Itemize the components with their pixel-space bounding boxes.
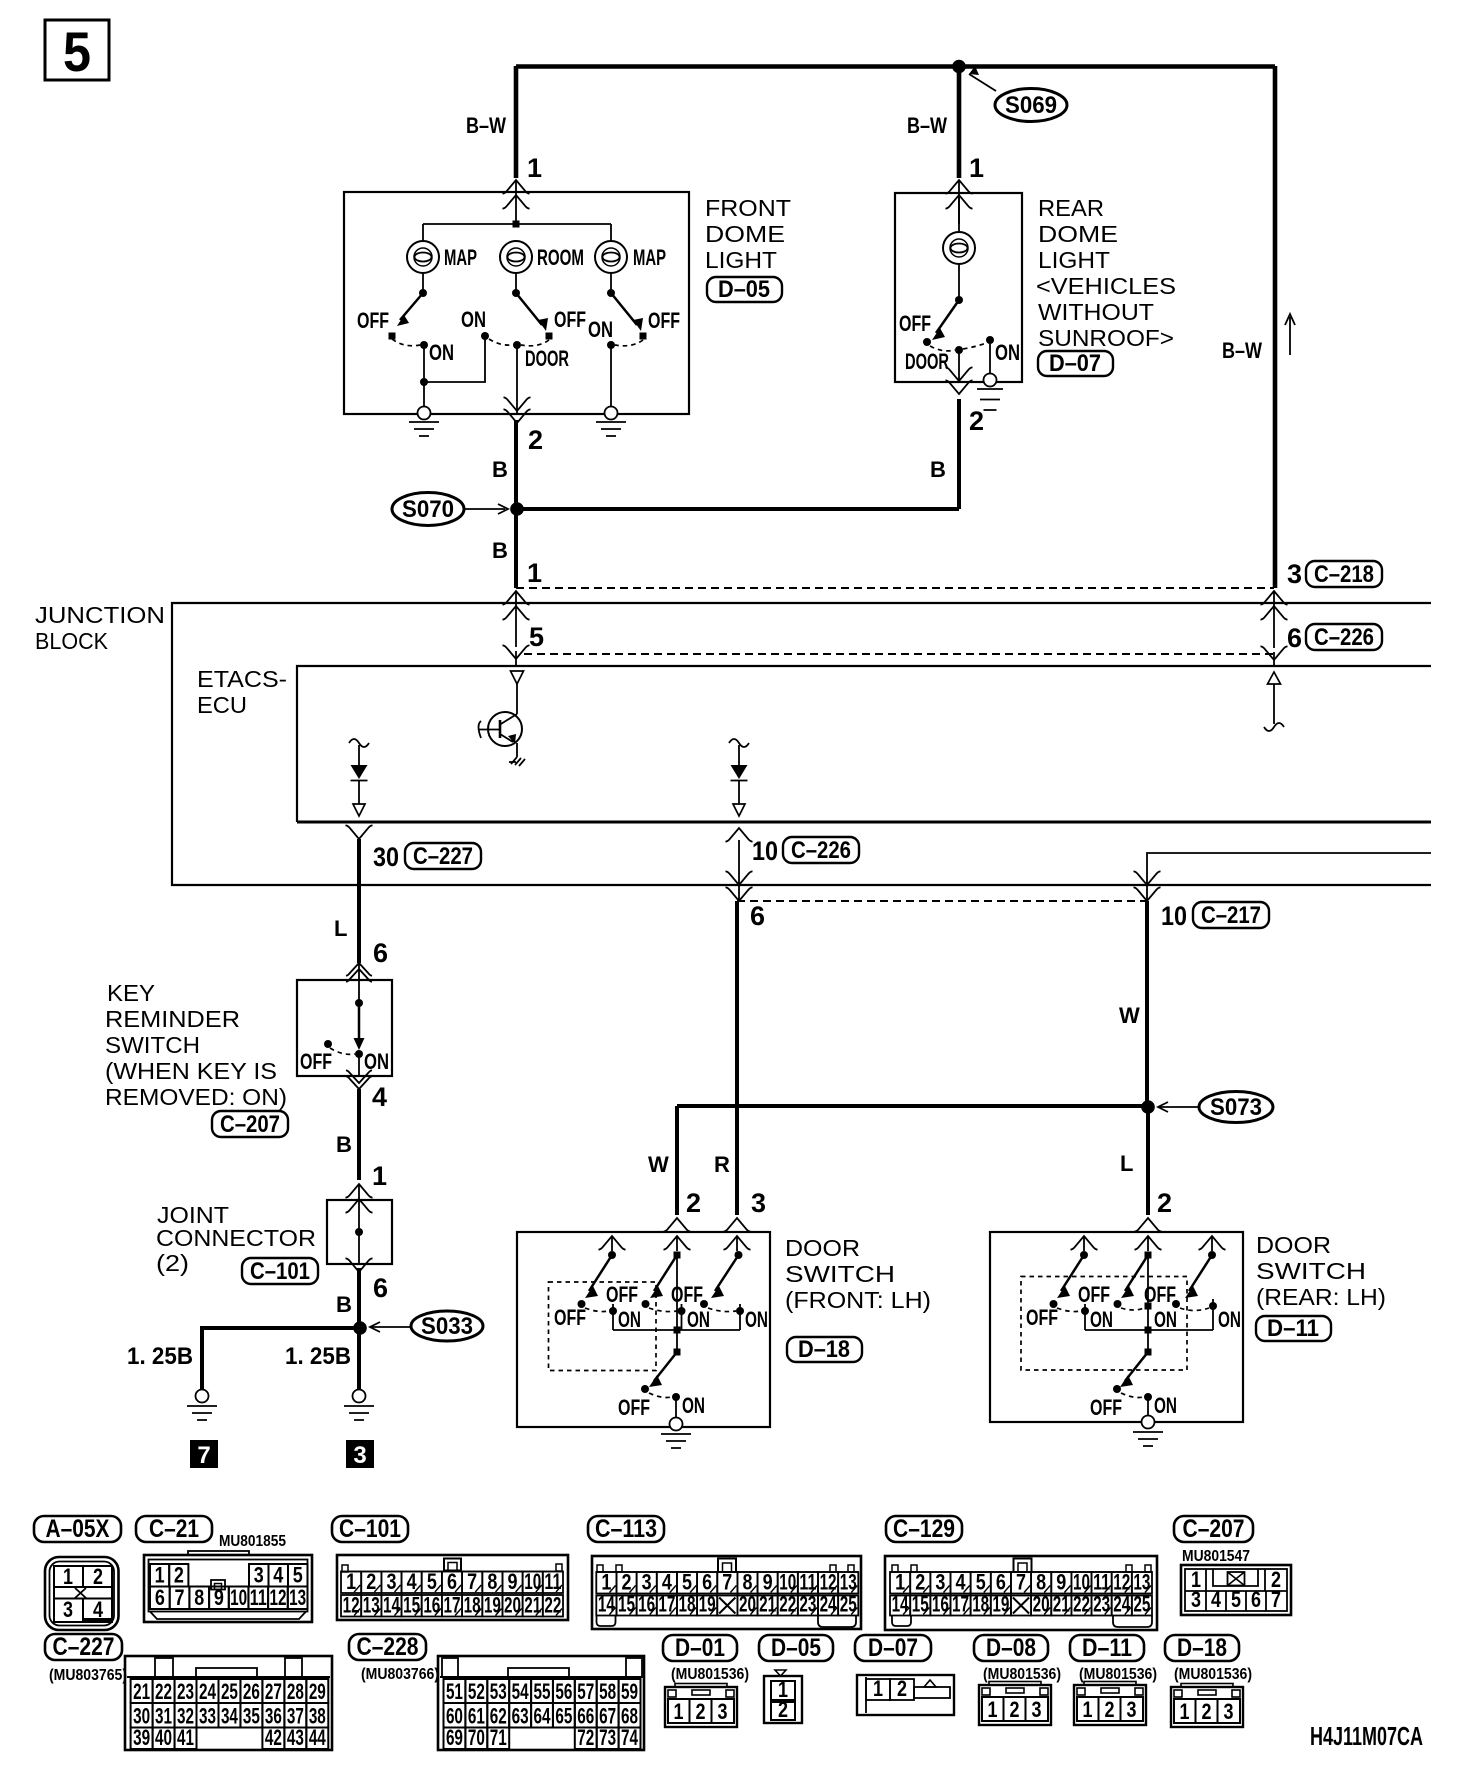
- label ETACS-ECU: [197, 666, 287, 718]
- svg-text:7: 7: [1271, 1587, 1281, 1612]
- svg-text:OFF: OFF: [671, 1282, 703, 1307]
- svg-text:14: 14: [892, 1592, 910, 1617]
- connector C-227 body: [125, 1656, 332, 1750]
- svg-text:6: 6: [750, 901, 765, 931]
- svg-text:FRONT: FRONT: [705, 195, 791, 221]
- svg-text:(MU801536): (MU801536): [1079, 1666, 1157, 1683]
- svg-text:17: 17: [444, 1593, 461, 1618]
- pin 2 front dome light: [504, 397, 531, 411]
- svg-text:S069: S069: [1005, 92, 1057, 119]
- label D-05: [707, 276, 782, 303]
- label S073: [1158, 1092, 1273, 1123]
- dashed line front door connector: [737, 900, 1147, 902]
- svg-text:41: 41: [177, 1725, 194, 1750]
- svg-text:D–07: D–07: [1049, 350, 1101, 377]
- svg-text:1. 25B: 1. 25B: [285, 1343, 351, 1370]
- svg-text:D–07: D–07: [868, 1634, 918, 1662]
- svg-text:OFF: OFF: [618, 1395, 650, 1420]
- diode D1 left: [349, 739, 369, 816]
- node S073 junction dot: [1141, 1100, 1155, 1114]
- svg-text:SUNROOF>: SUNROOF>: [1038, 325, 1174, 351]
- wire S070 horizontal: [516, 507, 959, 511]
- svg-text:C–129: C–129: [893, 1515, 955, 1543]
- svg-text:WITHOUT: WITHOUT: [1038, 299, 1154, 325]
- wire B-W top horizontal: [516, 64, 1275, 69]
- junction block outline: [172, 603, 1431, 885]
- front door dashed box: [549, 1282, 657, 1371]
- svg-text:C–227: C–227: [413, 843, 473, 870]
- label DOOR SWITCH REAR LH: [1256, 1232, 1386, 1310]
- svg-text:2: 2: [1157, 1188, 1172, 1218]
- svg-text:15: 15: [912, 1592, 929, 1617]
- svg-text:DOOR: DOOR: [525, 346, 569, 371]
- pin 30 C-227 below ETACS: [346, 825, 373, 839]
- connector C-207 body: [1181, 1565, 1291, 1615]
- svg-text:21: 21: [133, 1679, 150, 1704]
- svg-text:(WHEN KEY IS: (WHEN KEY IS: [105, 1058, 277, 1084]
- rear door switch box D-11: [990, 1232, 1243, 1422]
- svg-text:21: 21: [759, 1592, 776, 1617]
- wire W down to S073: [1145, 901, 1149, 1106]
- connector D-11 body: [1074, 1682, 1146, 1726]
- svg-text:4: 4: [1211, 1587, 1222, 1612]
- svg-text:C–101: C–101: [250, 1258, 310, 1285]
- svg-text:H4J11M07CA: H4J11M07CA: [1310, 1721, 1423, 1751]
- node S070 junction dot: [510, 502, 524, 516]
- svg-text:9: 9: [508, 1569, 518, 1594]
- connector C-228 label: [349, 1633, 426, 1661]
- rear door pin chevrons: [1135, 1218, 1162, 1232]
- dashed line pin1 to C-218: [516, 587, 1274, 589]
- svg-text:7: 7: [197, 1442, 210, 1469]
- front door pin chevrons: [664, 1218, 691, 1232]
- svg-text:S070: S070: [402, 496, 454, 523]
- svg-text:10: 10: [1161, 901, 1187, 931]
- joint connector internal: [355, 1200, 363, 1264]
- rear door dashed box: [1021, 1277, 1187, 1371]
- svg-text:10: 10: [230, 1585, 247, 1610]
- key reminder switch box C-207: [297, 980, 392, 1076]
- svg-text:3: 3: [254, 1563, 264, 1588]
- svg-text:33: 33: [199, 1704, 216, 1729]
- connector D-07 label: [855, 1634, 931, 1662]
- ground left inside front dome: [409, 382, 439, 436]
- svg-text:W: W: [1119, 1003, 1140, 1028]
- svg-text:ON: ON: [1218, 1307, 1241, 1332]
- svg-text:2: 2: [93, 1564, 103, 1589]
- svg-text:4: 4: [93, 1597, 104, 1622]
- svg-text:2: 2: [366, 1569, 376, 1594]
- svg-text:42: 42: [265, 1725, 282, 1750]
- svg-text:C–218: C–218: [1314, 561, 1374, 588]
- svg-text:ON: ON: [461, 307, 486, 332]
- svg-text:25: 25: [1133, 1592, 1150, 1617]
- label C-101: [242, 1258, 318, 1285]
- svg-text:3: 3: [1287, 559, 1302, 589]
- svg-text:1: 1: [346, 1569, 356, 1594]
- label JUNCTION BLOCK: [35, 602, 165, 654]
- svg-text:16: 16: [423, 1593, 440, 1618]
- svg-text:DOOR: DOOR: [905, 349, 949, 374]
- connector C-101 label bottom: [332, 1515, 408, 1543]
- svg-text:S073: S073: [1210, 1094, 1262, 1121]
- svg-text:5: 5: [427, 1569, 437, 1594]
- front door switch 1: [554, 1251, 641, 1332]
- svg-text:OFF: OFF: [1078, 1282, 1110, 1307]
- svg-text:B–W: B–W: [907, 113, 947, 138]
- label D-07: [1038, 350, 1113, 377]
- ETACS output arrow up right channel: [1264, 672, 1284, 731]
- svg-text:7: 7: [722, 1570, 732, 1595]
- svg-text:14: 14: [598, 1592, 616, 1617]
- svg-text:65: 65: [555, 1704, 572, 1729]
- svg-text:58: 58: [599, 1679, 616, 1704]
- transistor Q1: [479, 712, 526, 766]
- connector C-101 body: [337, 1555, 568, 1620]
- svg-text:63: 63: [512, 1704, 529, 1729]
- svg-text:B: B: [336, 1292, 352, 1317]
- svg-text:15: 15: [618, 1592, 635, 1617]
- svg-text:ON: ON: [745, 1307, 768, 1332]
- svg-text:25: 25: [840, 1592, 857, 1617]
- svg-text:1: 1: [63, 1564, 73, 1589]
- svg-text:C–228: C–228: [357, 1633, 419, 1661]
- svg-text:B: B: [492, 457, 508, 482]
- connector D-01 label: [663, 1634, 737, 1662]
- svg-text:ON: ON: [1090, 1307, 1113, 1332]
- svg-text:29: 29: [309, 1679, 326, 1704]
- wire pin10 down to junction bottom: [738, 840, 740, 900]
- svg-text:ECU: ECU: [197, 692, 247, 718]
- rear door ground: [1133, 1416, 1163, 1447]
- svg-text:D–18: D–18: [798, 1336, 850, 1363]
- svg-text:B: B: [492, 538, 508, 563]
- svg-text:KEY: KEY: [107, 980, 155, 1006]
- svg-text:BLOCK: BLOCK: [35, 628, 109, 654]
- svg-text:23: 23: [1093, 1592, 1110, 1617]
- pin 6 joint connector: [346, 1258, 373, 1272]
- svg-text:18: 18: [678, 1592, 695, 1617]
- svg-text:72: 72: [577, 1725, 594, 1750]
- switch MAP right: [588, 273, 680, 407]
- svg-text:DOME: DOME: [705, 221, 785, 247]
- pin 6 C-226 label: [1287, 623, 1382, 653]
- front door switch box D-18: [517, 1232, 770, 1427]
- svg-text:7: 7: [467, 1569, 477, 1594]
- wire into ETACS left: [503, 645, 530, 659]
- svg-text:ETACS-: ETACS-: [197, 666, 287, 692]
- svg-text:57: 57: [577, 1679, 594, 1704]
- svg-text:39: 39: [133, 1725, 150, 1750]
- connector D-05 label: [759, 1634, 833, 1662]
- svg-text:1. 25B: 1. 25B: [127, 1343, 193, 1370]
- wire from off-page right at y853: [1147, 853, 1431, 900]
- svg-text:5: 5: [1231, 1587, 1241, 1612]
- svg-text:18: 18: [464, 1593, 481, 1618]
- label DOOR SWITCH FRONT LH: [785, 1235, 931, 1313]
- svg-text:D–05: D–05: [771, 1634, 821, 1662]
- rear door switch 1: [1026, 1251, 1113, 1332]
- svg-text:15: 15: [403, 1593, 420, 1618]
- connector D-08 body: [979, 1682, 1051, 1726]
- svg-text:16: 16: [932, 1592, 949, 1617]
- svg-text:69: 69: [446, 1725, 463, 1750]
- connector C-21 body: [144, 1551, 312, 1622]
- svg-text:1: 1: [873, 1676, 883, 1701]
- connector C-228 body: [438, 1656, 644, 1750]
- svg-text:59: 59: [621, 1679, 638, 1704]
- svg-text:ON: ON: [995, 340, 1020, 365]
- svg-text:6: 6: [155, 1585, 165, 1610]
- svg-text:35: 35: [243, 1704, 260, 1729]
- pin 10 C-217 label: [1161, 901, 1269, 931]
- label S070: [392, 493, 508, 526]
- svg-text:24: 24: [199, 1679, 217, 1704]
- connector D-18 label bottom: [1165, 1634, 1239, 1662]
- rear door bus: [1085, 1329, 1213, 1331]
- svg-text:C–113: C–113: [595, 1515, 657, 1543]
- wire B to S033: [357, 1268, 361, 1328]
- svg-text:B: B: [336, 1132, 352, 1157]
- svg-text:C–207: C–207: [220, 1111, 280, 1138]
- node S069 junction dot: [952, 60, 966, 74]
- svg-text:(MU803765): (MU803765): [49, 1667, 127, 1684]
- svg-text:55: 55: [534, 1679, 551, 1704]
- label D-18: [787, 1336, 862, 1363]
- svg-text:OFF: OFF: [554, 307, 586, 332]
- svg-text:ON: ON: [429, 340, 454, 365]
- svg-text:4: 4: [273, 1563, 284, 1588]
- svg-text:6: 6: [447, 1569, 457, 1594]
- svg-text:17: 17: [952, 1592, 969, 1617]
- svg-text:10: 10: [752, 836, 778, 866]
- svg-text:18: 18: [972, 1592, 989, 1617]
- page marker 3: [346, 1440, 374, 1469]
- svg-text:DOOR: DOOR: [785, 1235, 860, 1261]
- svg-text:<VEHICLES: <VEHICLES: [1036, 273, 1176, 299]
- wire W front door up: [675, 1106, 679, 1215]
- node S033 junction dot: [353, 1321, 367, 1335]
- svg-text:B–W: B–W: [466, 113, 506, 138]
- svg-text:OFF: OFF: [357, 308, 389, 333]
- front door switch 2: [606, 1252, 710, 1333]
- wire into ETACS right: [1261, 646, 1288, 660]
- svg-text:20: 20: [1033, 1592, 1050, 1617]
- svg-text:11: 11: [544, 1569, 561, 1594]
- connector D-01 body: [665, 1684, 737, 1728]
- svg-text:(MU801536): (MU801536): [983, 1666, 1061, 1683]
- lamp MAP left: [407, 241, 439, 273]
- svg-text:5: 5: [63, 20, 91, 83]
- svg-text:D–11: D–11: [1267, 1315, 1319, 1342]
- svg-text:71: 71: [490, 1725, 507, 1750]
- svg-text:43: 43: [287, 1725, 304, 1750]
- label JOINT CONNECTOR (2): [156, 1202, 316, 1276]
- svg-text:DOME: DOME: [1038, 221, 1118, 247]
- svg-text:(MU801536): (MU801536): [671, 1666, 749, 1683]
- svg-text:(MU801536): (MU801536): [1174, 1666, 1252, 1683]
- wire B to joint connector: [357, 1089, 361, 1180]
- label KEY REMINDER SWITCH: [105, 980, 287, 1110]
- front dome light box D-05: [344, 192, 689, 414]
- svg-text:REMINDER: REMINDER: [105, 1006, 240, 1032]
- svg-text:B–W: B–W: [1222, 338, 1262, 363]
- svg-text:64: 64: [534, 1704, 552, 1729]
- svg-text:2: 2: [686, 1188, 701, 1218]
- svg-text:OFF: OFF: [1090, 1395, 1122, 1420]
- svg-text:(MU803766): (MU803766): [361, 1666, 439, 1683]
- svg-text:56: 56: [555, 1679, 572, 1704]
- svg-text:REAR: REAR: [1038, 195, 1104, 221]
- rear door switch 2: [1078, 1252, 1177, 1333]
- svg-text:1: 1: [155, 1563, 165, 1588]
- svg-text:6: 6: [373, 938, 388, 968]
- svg-text:D–18: D–18: [1177, 1634, 1227, 1662]
- connector D-08 label: [974, 1634, 1048, 1662]
- svg-text:R: R: [714, 1152, 730, 1177]
- connector C-113 body: [592, 1556, 861, 1629]
- svg-text:REMOVED: ON): REMOVED: ON): [105, 1084, 287, 1110]
- svg-text:2: 2: [969, 406, 984, 436]
- wire pin30 down: [357, 839, 361, 963]
- svg-text:23: 23: [177, 1679, 194, 1704]
- svg-text:8: 8: [194, 1585, 204, 1610]
- svg-text:30: 30: [373, 842, 399, 872]
- svg-text:OFF: OFF: [554, 1305, 586, 1330]
- svg-text:70: 70: [468, 1725, 485, 1750]
- connector C-21 label: [136, 1515, 212, 1543]
- connector A-05X label: [34, 1515, 121, 1543]
- wire B front dome to S070: [514, 420, 518, 509]
- svg-text:16: 16: [638, 1592, 655, 1617]
- svg-text:MAP: MAP: [444, 245, 477, 270]
- svg-text:L: L: [334, 916, 347, 941]
- svg-text:D–08: D–08: [986, 1634, 1036, 1662]
- diode D2 right: [729, 739, 749, 816]
- svg-text:(FRONT: LH): (FRONT: LH): [785, 1287, 931, 1313]
- svg-text:CONNECTOR: CONNECTOR: [156, 1225, 316, 1251]
- svg-text:13: 13: [363, 1593, 380, 1618]
- wire S033 horizontal: [202, 1326, 359, 1330]
- svg-text:OFF: OFF: [899, 311, 931, 336]
- svg-text:MU801855: MU801855: [219, 1533, 286, 1550]
- svg-text:26: 26: [243, 1679, 260, 1704]
- svg-text:40: 40: [155, 1725, 172, 1750]
- svg-text:19: 19: [484, 1593, 501, 1618]
- svg-text:C–21: C–21: [149, 1515, 199, 1543]
- svg-text:1: 1: [969, 153, 984, 183]
- svg-text:3: 3: [353, 1442, 366, 1469]
- connector C-207 label: [1174, 1515, 1253, 1543]
- svg-text:27: 27: [265, 1679, 282, 1704]
- arrow up beside B-W right: [1285, 314, 1295, 355]
- svg-text:2: 2: [528, 425, 543, 455]
- svg-text:C–226: C–226: [791, 837, 851, 864]
- rear dome light box D-07: [895, 193, 1022, 382]
- pin 4 C-207 crossing: [346, 1070, 372, 1089]
- svg-text:MAP: MAP: [633, 245, 666, 270]
- svg-text:3: 3: [751, 1188, 766, 1218]
- svg-text:3: 3: [1191, 1587, 1201, 1612]
- svg-text:17: 17: [658, 1592, 675, 1617]
- svg-text:ON: ON: [364, 1049, 389, 1074]
- wire pin3 through junction top right: [1261, 591, 1288, 605]
- connector C-113 label: [588, 1515, 664, 1543]
- svg-text:ON: ON: [682, 1393, 705, 1418]
- front door ground: [661, 1418, 691, 1449]
- svg-text:19: 19: [699, 1592, 716, 1617]
- svg-text:22: 22: [155, 1679, 172, 1704]
- connector C-129 body: [885, 1556, 1157, 1630]
- svg-text:C–101: C–101: [339, 1515, 401, 1543]
- svg-text:6: 6: [1287, 623, 1302, 653]
- wire B-W right vertical: [1273, 66, 1278, 588]
- svg-text:19: 19: [992, 1592, 1009, 1617]
- front dome internal bus: [423, 223, 611, 225]
- wire L S073 to rear door switch: [1146, 1107, 1150, 1215]
- switch ON branch middle: [424, 307, 512, 382]
- svg-text:5: 5: [529, 622, 544, 652]
- svg-text:ON: ON: [618, 1307, 641, 1332]
- svg-text:52: 52: [468, 1679, 485, 1704]
- svg-text:C–217: C–217: [1201, 902, 1261, 929]
- wire pin1 through junction top: [503, 591, 530, 605]
- connector D-18 body: [1171, 1684, 1243, 1728]
- svg-text:OFF: OFF: [300, 1049, 332, 1074]
- lamp ROOM: [500, 241, 532, 273]
- connector D-07 body: [857, 1675, 954, 1715]
- svg-text:11: 11: [250, 1585, 267, 1610]
- label C-207: [212, 1111, 288, 1138]
- svg-text:54: 54: [512, 1679, 530, 1704]
- connector C-129 label: [886, 1515, 962, 1543]
- label FRONT DOME LIGHT: [705, 195, 791, 273]
- wire B rear dome down: [957, 399, 961, 509]
- svg-text:1: 1: [372, 1161, 387, 1191]
- svg-text:8: 8: [487, 1569, 497, 1594]
- svg-text:51: 51: [446, 1679, 463, 1704]
- connector D-11 label bottom: [1070, 1634, 1144, 1662]
- svg-text:12: 12: [269, 1585, 286, 1610]
- svg-text:73: 73: [599, 1725, 616, 1750]
- svg-text:OFF: OFF: [1026, 1305, 1058, 1330]
- svg-text:B: B: [930, 457, 946, 482]
- svg-text:W: W: [648, 1152, 669, 1177]
- connector C-227 label: [45, 1633, 122, 1661]
- svg-text:20: 20: [504, 1593, 521, 1618]
- ground right inside front dome: [596, 407, 626, 437]
- front door switch 3: [671, 1251, 768, 1332]
- svg-text:MU801547: MU801547: [1182, 1548, 1250, 1565]
- pin 10 C-226 below ETACS: [726, 828, 753, 842]
- svg-text:DOOR: DOOR: [1256, 1232, 1331, 1258]
- svg-text:53: 53: [490, 1679, 507, 1704]
- wire R to front door switch: [735, 901, 739, 1215]
- joint connector box C-101: [327, 1200, 392, 1264]
- svg-text:(REAR: LH): (REAR: LH): [1256, 1284, 1386, 1310]
- rear dome lamp: [958, 195, 960, 232]
- rear door switch 4: [1090, 1330, 1177, 1420]
- svg-text:2: 2: [778, 1697, 788, 1722]
- svg-text:4: 4: [372, 1082, 387, 1112]
- svg-text:SWITCH: SWITCH: [105, 1032, 200, 1058]
- svg-text:22: 22: [779, 1592, 796, 1617]
- svg-text:C–226: C–226: [1314, 624, 1374, 651]
- svg-text:21: 21: [524, 1593, 541, 1618]
- ETACS-ECU box: [297, 666, 1431, 822]
- svg-text:D–11: D–11: [1082, 1634, 1132, 1662]
- rear dome ON ground: [977, 340, 1003, 410]
